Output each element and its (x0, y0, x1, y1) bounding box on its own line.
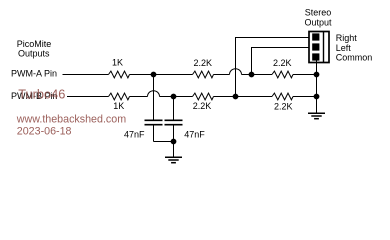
svg-text:2.2K: 2.2K (273, 58, 292, 68)
resistor 1K top (R1) (109, 71, 130, 78)
svg-text:Right: Right (336, 33, 358, 43)
junction right rail bottom (314, 94, 320, 100)
label PicoMite Outputs (17, 39, 52, 59)
wire R4 to hop (130, 96, 148, 98)
wire hop to node C and on to R5 (160, 96, 193, 98)
svg-text:Stereo: Stereo (305, 7, 332, 17)
svg-text:1K: 1K (113, 101, 124, 111)
junction node C (171, 94, 177, 100)
wire R3 to right rail (293, 74, 317, 76)
wire hop over vertical (top row) (230, 69, 242, 75)
wire Common pin down right rail (316, 57, 318, 113)
junction node E (171, 139, 177, 145)
wire node A down to C1 (153, 75, 155, 120)
wire R5 to node D and on to R6 (214, 96, 273, 98)
wire C2 bottom to node E (173, 126, 175, 142)
wire hop to node B and on to R3 (242, 74, 273, 76)
resistor 1K bottom (R4) (109, 93, 130, 100)
svg-text:2.2K: 2.2K (193, 101, 212, 111)
resistor 2.2K top right (R3) (272, 71, 293, 78)
label Stereo Output (304, 7, 332, 27)
svg-text:1K: 1K (112, 57, 123, 67)
wire PWM-A to R1 (63, 74, 109, 76)
svg-text:PWM-A Pin: PWM-A Pin (11, 68, 57, 78)
ground (capacitors) (165, 157, 182, 162)
wire node B up to Left pin (252, 48, 310, 75)
svg-text:Common: Common (336, 53, 373, 63)
resistor 2.2K bottom right (R6) (272, 93, 293, 100)
capacitor C1 47nF (145, 120, 163, 124)
wire node C down to C2 (173, 97, 175, 120)
resistor 2.2K bottom mid (R5) (193, 93, 214, 100)
ground (output) (308, 113, 325, 118)
capacitor C2 47nF (165, 120, 183, 124)
junction node A (151, 72, 157, 78)
wire hop over vertical (bottom row) (148, 91, 160, 97)
wire R6 to right rail (293, 96, 317, 98)
wire R2 to hop (214, 74, 230, 76)
junction node D (233, 94, 239, 100)
wire PWM-B to R4 (67, 96, 109, 98)
wire node E to ground (173, 142, 175, 158)
svg-text:Left: Left (336, 43, 352, 53)
wire node D up to Right pin (236, 38, 310, 97)
wire C1 bottom (153, 126, 155, 142)
wire R1 to node A and on to R2 (130, 74, 193, 76)
connector J1 stereo jack (309, 32, 329, 63)
svg-text:Output: Output (304, 17, 332, 27)
resistor 2.2K top mid (R2) (193, 71, 214, 78)
svg-text:2023-06-18: 2023-06-18 (17, 125, 72, 137)
svg-text:PicoMite: PicoMite (17, 39, 52, 49)
svg-text:47nF: 47nF (124, 129, 145, 139)
svg-text:www.thebackshed.com: www.thebackshed.com (16, 113, 126, 125)
svg-text:Outputs: Outputs (18, 49, 50, 59)
junction right rail top (314, 72, 320, 78)
junction node B (249, 72, 255, 78)
svg-text:47nF: 47nF (184, 129, 205, 139)
wire C1 bottom to node E (154, 141, 174, 143)
svg-text:2.2K: 2.2K (274, 102, 293, 112)
svg-text:Turbo46: Turbo46 (18, 87, 65, 102)
svg-text:2.2K: 2.2K (193, 58, 212, 68)
